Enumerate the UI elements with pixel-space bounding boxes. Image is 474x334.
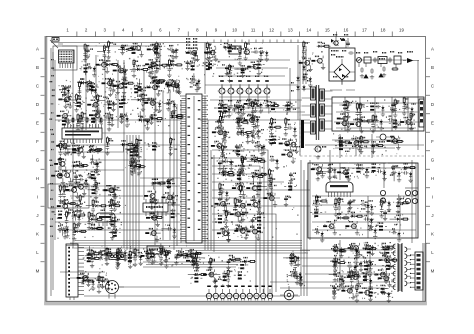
capacitor C24 bbox=[94, 160, 101, 172]
svg-text:L: L bbox=[36, 250, 39, 255]
capacitor C133 bbox=[329, 272, 340, 282]
capacitor C68 bbox=[248, 99, 263, 113]
wire bbox=[344, 97, 346, 131]
resistor R7 bbox=[80, 64, 92, 75]
wire bbox=[117, 60, 119, 128]
transistor Q31 bbox=[186, 48, 200, 62]
svg-text:15: 15 bbox=[325, 28, 330, 33]
resistor R76 bbox=[214, 215, 226, 223]
capacitor C39 bbox=[168, 195, 178, 206]
SMPS transformer T1 bbox=[302, 85, 333, 140]
capacitor C109 bbox=[117, 248, 127, 262]
wire bbox=[411, 160, 413, 243]
resistor R117 bbox=[337, 197, 343, 216]
capacitor C78 bbox=[285, 102, 293, 113]
small IC U8 bbox=[143, 199, 168, 216]
capacitor C71 bbox=[235, 144, 244, 154]
capacitor C22 bbox=[61, 85, 71, 95]
capacitor C55 bbox=[189, 78, 199, 92]
wire bbox=[212, 189, 310, 191]
capacitor C19 bbox=[104, 113, 114, 127]
capacitor C126 bbox=[292, 269, 302, 283]
resistor R141 bbox=[190, 274, 202, 282]
resistor R130 bbox=[83, 254, 95, 262]
transistor Q50 bbox=[263, 193, 277, 207]
capacitor C38 bbox=[131, 161, 141, 175]
diode D10 bbox=[79, 78, 93, 84]
transistor Q11 bbox=[89, 108, 103, 124]
resistor R21 bbox=[119, 80, 131, 88]
capacitor C48 bbox=[168, 45, 178, 59]
resistor R38 bbox=[58, 184, 64, 203]
capacitor C148 bbox=[335, 276, 345, 290]
capacitor C47 bbox=[241, 67, 248, 77]
capacitor C129 bbox=[293, 273, 303, 287]
resistor R37 bbox=[58, 157, 64, 176]
transistor Q5 bbox=[165, 79, 179, 93]
optocoupler U10 bbox=[376, 134, 390, 143]
capacitor C94 bbox=[356, 164, 369, 178]
capacitor C74 bbox=[241, 212, 248, 222]
section box lower right bbox=[308, 163, 418, 238]
resistor R53 bbox=[167, 209, 179, 218]
capacitor C77 bbox=[238, 117, 245, 127]
capacitor C53 bbox=[170, 49, 178, 59]
svg-text:8: 8 bbox=[196, 28, 199, 33]
wire bbox=[132, 135, 134, 254]
capacitor C88 bbox=[388, 115, 398, 129]
transistor Q35 bbox=[211, 141, 225, 155]
diode D49 bbox=[370, 141, 384, 154]
bridge rectifier D20 bbox=[329, 56, 355, 84]
capacitor C29 bbox=[63, 145, 70, 155]
junction bbox=[239, 213, 241, 215]
diode D31 bbox=[155, 61, 169, 67]
diode D70 bbox=[332, 256, 346, 264]
svg-text:G: G bbox=[36, 158, 40, 163]
diode D15 bbox=[73, 227, 87, 233]
capacitor C43 bbox=[208, 44, 215, 59]
diode D63 bbox=[175, 250, 189, 256]
wire bbox=[212, 181, 284, 183]
resistor R58 bbox=[243, 41, 249, 60]
chopper transistor Q30 bbox=[314, 146, 327, 159]
capacitor C90 bbox=[316, 171, 326, 181]
svg-text:D: D bbox=[431, 102, 434, 107]
transistor Q25 bbox=[146, 213, 160, 227]
transistor Q29 bbox=[247, 62, 261, 76]
wire bbox=[303, 170, 305, 296]
capacitor C52 bbox=[154, 45, 161, 55]
diode D72 bbox=[382, 255, 398, 262]
transistor Q55 bbox=[336, 118, 350, 132]
capacitor C46 bbox=[259, 48, 269, 62]
transistor Q10 bbox=[57, 111, 71, 125]
diode D58 bbox=[87, 253, 101, 260]
capacitor C66 bbox=[250, 218, 257, 228]
secondary box bbox=[332, 97, 424, 131]
capacitor C98 bbox=[348, 199, 355, 209]
capacitor C131 bbox=[347, 262, 357, 276]
wire bbox=[85, 46, 87, 130]
capacitor C70 bbox=[257, 129, 264, 139]
wire bbox=[70, 195, 143, 197]
capacitor C67 bbox=[233, 104, 244, 118]
resistor R30 bbox=[58, 142, 64, 161]
resistor R13 bbox=[115, 100, 127, 108]
IC jungle processor U1 bbox=[180, 94, 208, 243]
resistor R9 bbox=[150, 61, 158, 80]
capacitor C105 bbox=[347, 201, 354, 211]
resistor R89 bbox=[251, 101, 257, 120]
svg-text:C: C bbox=[431, 84, 434, 89]
capacitor C76 bbox=[236, 105, 243, 115]
capacitor C89 bbox=[371, 143, 378, 153]
flyback transformer T2 bbox=[391, 243, 411, 292]
wire bbox=[60, 169, 124, 171]
wire bbox=[302, 265, 390, 267]
svg-text:10: 10 bbox=[232, 28, 237, 33]
resistor R146 bbox=[348, 269, 356, 288]
capacitor C147 bbox=[363, 257, 374, 271]
diode D24 bbox=[131, 162, 146, 174]
svg-text:19: 19 bbox=[399, 28, 404, 33]
diode D51 bbox=[356, 137, 370, 147]
transistor Q69 bbox=[379, 255, 393, 269]
capacitor C63 bbox=[219, 188, 229, 202]
capacitor C72 bbox=[256, 141, 266, 155]
wire bbox=[72, 247, 302, 249]
diode D45 bbox=[268, 122, 282, 129]
resistor R2 bbox=[150, 45, 162, 53]
svg-text:12: 12 bbox=[269, 28, 274, 33]
capacitor C110 bbox=[163, 252, 170, 262]
diode D44 bbox=[266, 101, 280, 114]
resistor R25 bbox=[117, 95, 129, 104]
resistor R52 bbox=[163, 179, 175, 187]
diode D66 bbox=[188, 270, 207, 276]
capacitor C25 bbox=[73, 172, 81, 184]
transistor Q47 bbox=[279, 138, 293, 152]
wire bbox=[339, 163, 341, 180]
grid row letters right A-M bbox=[426, 47, 435, 274]
capacitor C8 bbox=[88, 85, 98, 99]
wire bbox=[135, 135, 137, 256]
transistor Q49 bbox=[281, 149, 296, 163]
resistor R48 bbox=[129, 157, 140, 176]
resistor R69 bbox=[251, 114, 257, 133]
resistor R41 bbox=[64, 210, 70, 229]
wire bbox=[75, 240, 302, 242]
wire bbox=[123, 60, 125, 248]
resistor R145 bbox=[381, 245, 393, 253]
wire bbox=[205, 84, 298, 86]
capacitor C64 bbox=[223, 201, 230, 213]
wire bbox=[415, 163, 417, 238]
resistor R113 bbox=[335, 142, 349, 152]
resistor R47 bbox=[130, 148, 142, 156]
wire bbox=[312, 221, 400, 223]
transistor Q14 bbox=[51, 171, 65, 185]
wire bbox=[300, 257, 392, 259]
capacitor C115 bbox=[145, 251, 152, 261]
resistor R18 bbox=[77, 81, 83, 100]
capacitor C113 bbox=[174, 252, 182, 265]
capacitor C6 bbox=[62, 86, 69, 96]
top tick row bbox=[214, 40, 298, 43]
transistor Q65 bbox=[77, 273, 93, 287]
resistor R54 bbox=[105, 136, 113, 155]
diode D12 bbox=[88, 146, 102, 152]
svg-text:7: 7 bbox=[178, 28, 181, 33]
capacitor C92 bbox=[390, 168, 401, 182]
wire bbox=[312, 167, 416, 169]
resistor R142 bbox=[219, 273, 231, 281]
diode column D8 bbox=[291, 76, 300, 92]
svg-text:H: H bbox=[36, 176, 39, 181]
svg-text:4: 4 bbox=[122, 28, 125, 33]
junction bbox=[227, 213, 229, 215]
capacitor C111 bbox=[104, 251, 111, 261]
resistor R99 bbox=[284, 182, 296, 190]
resistor R90 bbox=[219, 111, 226, 130]
capacitor C86 bbox=[404, 103, 415, 117]
resistor R24 bbox=[104, 101, 118, 109]
wire bbox=[280, 287, 380, 289]
transistor Q6 bbox=[147, 82, 162, 96]
grid column numbers 1-19 bbox=[66, 28, 404, 37]
transistor Q36 bbox=[232, 182, 246, 197]
resistor R39 bbox=[88, 186, 100, 194]
resistor R136 bbox=[236, 261, 248, 269]
capacitor C31 bbox=[72, 175, 88, 189]
wire bbox=[336, 111, 418, 113]
capacitor C26 bbox=[75, 203, 82, 213]
resistor R72 bbox=[240, 155, 246, 174]
diode D27 bbox=[153, 179, 167, 185]
resistor R111 bbox=[335, 137, 347, 145]
junction bbox=[223, 165, 225, 167]
resistor R35 bbox=[54, 211, 66, 219]
junction bbox=[239, 221, 241, 223]
resistor R62 bbox=[224, 44, 236, 52]
resistor R112 bbox=[359, 135, 367, 154]
diode D41 bbox=[249, 155, 264, 166]
junction bbox=[223, 173, 225, 175]
resistor R49 bbox=[132, 144, 138, 163]
capacitor C16 bbox=[146, 114, 157, 124]
svg-text:3: 3 bbox=[103, 28, 106, 33]
svg-text:16: 16 bbox=[343, 28, 348, 33]
capacitor C21 bbox=[140, 116, 150, 130]
capacitor C116 bbox=[98, 250, 105, 260]
resistor R144 bbox=[290, 255, 300, 274]
resistor R98 bbox=[269, 177, 277, 196]
capacitor C9 bbox=[110, 81, 120, 95]
resistor R87 bbox=[253, 212, 265, 221]
resistor R114 bbox=[341, 167, 353, 177]
resistor R11 bbox=[70, 93, 82, 112]
resistor R85 bbox=[238, 184, 244, 203]
resistor R42 bbox=[87, 211, 93, 230]
resistor R16 bbox=[87, 115, 99, 123]
capacitor C106 bbox=[360, 200, 370, 214]
capacitor C108 bbox=[396, 201, 403, 213]
wire bbox=[374, 97, 376, 131]
wire bbox=[95, 55, 97, 128]
capacitor C27 bbox=[71, 212, 81, 226]
wire bbox=[212, 158, 264, 293]
capacitor C119 bbox=[85, 277, 95, 291]
wire bbox=[126, 135, 128, 250]
sheet border gray band bbox=[44, 36, 427, 305]
transistor Q32 bbox=[145, 59, 159, 73]
diode D59 bbox=[179, 248, 193, 259]
resistor R94 bbox=[265, 136, 277, 144]
capacitor C13 bbox=[150, 99, 162, 113]
IC U4 small box bbox=[147, 246, 163, 254]
diode D35 bbox=[235, 117, 249, 124]
transistor Q22 bbox=[103, 185, 117, 199]
wire bbox=[212, 166, 260, 293]
diode D25 bbox=[128, 160, 142, 167]
resistor R46 bbox=[109, 198, 119, 217]
speaker connector bbox=[405, 188, 418, 204]
wire bbox=[104, 55, 106, 250]
wire bbox=[329, 150, 331, 182]
resistor R44 bbox=[106, 217, 118, 225]
resistor R147 bbox=[355, 284, 361, 303]
transistor Q41 bbox=[215, 199, 229, 213]
wire bbox=[306, 180, 308, 296]
diode D9 bbox=[170, 113, 184, 119]
transistor Q54 bbox=[350, 119, 364, 133]
diode D73 bbox=[333, 247, 347, 257]
capacitor C93 bbox=[327, 164, 337, 179]
capacitor C33 bbox=[57, 225, 67, 239]
resistor R1 bbox=[97, 45, 109, 64]
resistor R126 bbox=[85, 249, 97, 268]
IC vertical U6 bbox=[410, 252, 423, 290]
capacitor C132 bbox=[366, 263, 373, 273]
capacitor C130 bbox=[363, 242, 375, 256]
capacitor C128 bbox=[293, 272, 303, 286]
resistor R4 bbox=[106, 40, 116, 59]
wire bbox=[140, 177, 180, 179]
mains row two bbox=[360, 66, 399, 79]
transistor Q21 bbox=[104, 185, 121, 199]
capacitor C44 bbox=[251, 48, 263, 62]
grid row letters left A-M bbox=[36, 47, 45, 274]
capacitor C103 bbox=[367, 225, 377, 239]
wire bbox=[334, 121, 420, 123]
capacitor C145 bbox=[331, 261, 341, 273]
wire bbox=[359, 97, 361, 131]
svg-text:B: B bbox=[431, 65, 434, 70]
svg-text:14: 14 bbox=[306, 28, 311, 33]
diode D11 bbox=[121, 79, 135, 88]
resistor R12 bbox=[96, 94, 106, 113]
resistor R125 bbox=[146, 249, 158, 257]
diode D16 bbox=[90, 224, 104, 230]
wire bbox=[330, 89, 355, 91]
capacitor C97 bbox=[403, 169, 413, 183]
wire bbox=[355, 59, 410, 61]
resistor R137 bbox=[223, 269, 233, 288]
diode D52 bbox=[403, 163, 417, 169]
diode D56 bbox=[348, 211, 364, 218]
resistor R60 bbox=[234, 65, 248, 73]
resistor R31 bbox=[87, 171, 99, 179]
transistor Q1 bbox=[130, 43, 144, 57]
wire bbox=[367, 196, 369, 238]
transistor Q48 bbox=[285, 139, 300, 153]
wire bbox=[312, 229, 416, 231]
resistor R36 bbox=[66, 145, 81, 153]
wire bbox=[305, 46, 307, 84]
CRT socket J3 bbox=[280, 286, 298, 300]
diode D23 bbox=[107, 201, 121, 207]
capacitor C40 bbox=[162, 225, 177, 239]
capacitor C42 bbox=[150, 199, 157, 209]
svg-text:A: A bbox=[431, 47, 434, 52]
transistor Q7 bbox=[58, 94, 72, 108]
wire bbox=[207, 120, 209, 250]
resistor R150 bbox=[360, 262, 372, 270]
resistor R32 bbox=[62, 184, 73, 203]
IC IF amplifier U2 bbox=[62, 117, 102, 143]
capacitor C125 bbox=[289, 271, 299, 285]
wire bbox=[212, 150, 268, 296]
wire bbox=[143, 70, 145, 200]
diode D34 bbox=[152, 76, 166, 82]
resistor R22 bbox=[130, 85, 142, 93]
resistor R122 bbox=[334, 198, 340, 217]
capacitor C91 bbox=[321, 169, 335, 179]
resistor R133 bbox=[128, 250, 134, 269]
resistor R59 bbox=[204, 60, 216, 69]
resistor R45 bbox=[109, 229, 121, 237]
transistor Q63 bbox=[185, 250, 199, 264]
wire bbox=[300, 249, 392, 251]
wire bbox=[72, 50, 74, 248]
wire bbox=[257, 85, 259, 88]
capacitor C61 bbox=[254, 142, 264, 156]
wire bbox=[62, 46, 160, 70]
transistor Q26 bbox=[145, 228, 160, 242]
resistor R50 bbox=[130, 144, 142, 152]
capacitor C124 bbox=[290, 253, 300, 267]
diode D4 bbox=[131, 95, 150, 101]
capacitor C75 bbox=[221, 228, 231, 242]
resistor R74 bbox=[253, 182, 267, 190]
diode D29 bbox=[120, 140, 134, 151]
transistor Q9 bbox=[144, 98, 158, 112]
diode D14 bbox=[90, 215, 104, 221]
resistor R81 bbox=[220, 144, 226, 163]
transistor Q8 bbox=[87, 100, 101, 114]
capacitor C96 bbox=[391, 165, 401, 175]
transistor Q59 bbox=[311, 164, 325, 178]
wire bbox=[204, 96, 206, 250]
wire bbox=[339, 134, 341, 158]
diode D62 bbox=[158, 243, 172, 253]
resistor R134 bbox=[159, 247, 165, 266]
resistor R110 bbox=[402, 96, 408, 115]
resistor R100 bbox=[302, 41, 308, 60]
svg-text:5: 5 bbox=[141, 28, 144, 33]
svg-text:E: E bbox=[431, 121, 434, 126]
